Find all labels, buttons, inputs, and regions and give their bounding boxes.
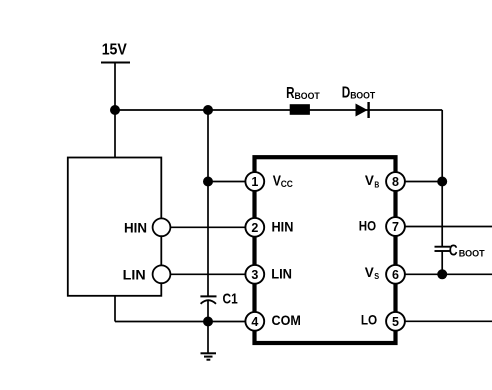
svg-text:R: R xyxy=(286,85,294,102)
svg-text:8: 8 xyxy=(392,175,399,189)
resistor RBOOT body xyxy=(290,104,310,115)
svg-text:B: B xyxy=(374,179,379,189)
svg-text:LO: LO xyxy=(361,313,377,329)
wire LIN terminal to pin3 xyxy=(165,273,248,275)
svg-text:BOOT: BOOT xyxy=(350,89,375,100)
wire pin5 LO output xyxy=(402,320,492,322)
svg-text:D: D xyxy=(342,84,351,101)
wire pin8 VB to bootstrap node xyxy=(402,181,442,183)
capacitor CBOOT plates xyxy=(435,247,451,251)
IC pin label VCC xyxy=(273,173,293,189)
node VCC junction xyxy=(203,177,213,187)
controller block xyxy=(68,158,162,296)
svg-text:BOOT: BOOT xyxy=(295,90,320,101)
node COM junction xyxy=(203,317,213,327)
supply 15V terminal bar xyxy=(101,62,130,64)
svg-text:15V: 15V xyxy=(102,42,127,59)
wire pin6 VS output xyxy=(402,273,492,275)
wire pin7 HO output xyxy=(402,226,492,228)
wire COM row to pin4 xyxy=(115,321,248,323)
pin 2 xyxy=(245,218,264,237)
svg-text:BOOT: BOOT xyxy=(459,247,485,258)
wire CBOOT vertical lower xyxy=(441,251,443,274)
node VS junction xyxy=(437,269,447,279)
svg-text:1: 1 xyxy=(251,175,258,189)
wire below C1 to ground node xyxy=(207,301,209,354)
svg-text:S: S xyxy=(374,271,379,281)
svg-text:CC: CC xyxy=(281,179,293,190)
pin 5 xyxy=(386,312,405,331)
svg-text:HIN: HIN xyxy=(272,220,294,235)
svg-text:C: C xyxy=(449,243,458,260)
wire top rail from 15V node to diode cathode corner xyxy=(115,109,442,111)
IC pin label VB xyxy=(365,173,379,189)
resistor RBOOT label xyxy=(286,85,320,102)
svg-text:LIN: LIN xyxy=(123,267,146,282)
pin 6 xyxy=(386,265,405,284)
diode DBOOT label xyxy=(342,84,376,101)
ground xyxy=(201,353,217,359)
svg-text:6: 6 xyxy=(392,268,399,282)
node branch top junction xyxy=(203,105,213,115)
wire vcc vertical branch xyxy=(207,110,209,296)
wire corner down to VB node xyxy=(441,110,443,182)
svg-text:2: 2 xyxy=(251,221,258,235)
diode DBOOT xyxy=(356,102,369,118)
pin 1 xyxy=(245,172,264,191)
svg-text:HO: HO xyxy=(359,219,376,235)
svg-text:7: 7 xyxy=(392,220,399,234)
svg-text:V: V xyxy=(365,265,375,281)
svg-text:4: 4 xyxy=(251,315,258,329)
node 15V junction xyxy=(110,105,120,115)
capacitor CBOOT label xyxy=(449,243,485,260)
terminal LIN circle xyxy=(153,265,171,283)
pin 4 xyxy=(245,312,264,331)
svg-text:3: 3 xyxy=(251,268,258,282)
svg-text:HIN: HIN xyxy=(124,221,147,236)
svg-text:LIN: LIN xyxy=(271,267,292,282)
pin 7 xyxy=(386,217,405,236)
node VB junction xyxy=(437,177,447,187)
svg-text:COM: COM xyxy=(272,312,301,328)
wire CBOOT vertical upper xyxy=(441,182,443,247)
pin 8 xyxy=(386,172,405,191)
wire 15V down to controller block xyxy=(114,63,116,158)
terminal HIN circle xyxy=(153,218,171,236)
capacitor C1 plates xyxy=(200,296,216,303)
pin 3 xyxy=(245,265,264,284)
svg-text:C1: C1 xyxy=(223,291,238,307)
wire pin1 VCC to branch xyxy=(208,181,248,183)
wire block bottom down xyxy=(114,296,116,322)
svg-text:5: 5 xyxy=(392,315,399,329)
IC pin label VS xyxy=(365,265,380,281)
svg-text:V: V xyxy=(365,173,375,189)
IC U1 gate driver body xyxy=(255,157,396,343)
wire HIN terminal to pin2 xyxy=(165,226,248,228)
